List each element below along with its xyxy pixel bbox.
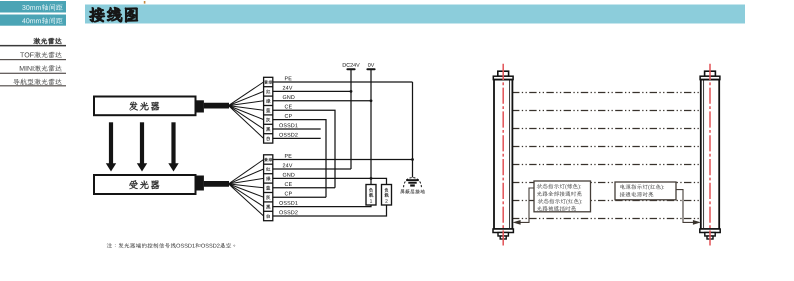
junction 24V emitter — [350, 90, 353, 93]
DC24V supply terminal — [343, 63, 360, 169]
sidebar tab 40mm axis pitch — [0, 15, 66, 26]
status LED leader arrow — [513, 188, 534, 225]
power LED annotation box — [615, 182, 676, 200]
0V supply terminal — [367, 63, 374, 184]
wire PE (emitter) to shield rail — [273, 76, 413, 82]
sidebar item laser radar (active) — [0, 38, 66, 47]
load 2 负载2 — [382, 185, 392, 206]
beam arrow 1 — [106, 122, 116, 171]
emitter terminal strip with wire colors — [229, 77, 273, 143]
wire OSSD1 (emitter, floating) — [273, 123, 321, 129]
page title bar 接线图 — [85, 5, 745, 24]
junction GND emitter — [370, 99, 373, 102]
power LED leader arrow — [676, 190, 701, 225]
PE shield rail — [412, 82, 414, 177]
wire OSSD2 (receiver) to load 2 — [273, 205, 387, 217]
wire CE (emitter) — [273, 105, 335, 188]
emitter box 发光器 — [94, 97, 196, 116]
receiver cable connector — [196, 176, 229, 191]
emitter cable connector — [196, 100, 229, 112]
status LED annotation box — [534, 181, 591, 212]
wire 24V (emitter) to DC24V rail — [273, 86, 351, 92]
wire CP (receiver) — [273, 192, 326, 198]
sidebar tab 30mm axis pitch — [0, 1, 66, 13]
wire GND (receiver) to 0V rail and load 2 — [273, 173, 387, 185]
junction PE receiver — [411, 158, 414, 161]
beam arrow 3 — [168, 122, 178, 171]
junction GND receiver / load 1 — [370, 177, 373, 180]
wire GND (emitter) to 0V rail — [273, 95, 371, 101]
earth ground symbol (shield grounding) — [400, 178, 425, 194]
wire CE (receiver) — [273, 182, 335, 188]
sidebar item navigation laser radar — [0, 79, 66, 87]
wire OSSD2 (emitter, floating) — [273, 133, 321, 139]
sidebar item TOF laser radar — [0, 52, 66, 61]
receiver box 受光器 — [94, 175, 196, 194]
light curtain tower left (emitter) — [493, 64, 513, 246]
load 1 负载1 — [366, 185, 376, 206]
beam arrow 2 — [137, 122, 147, 171]
wire CP (emitter) — [273, 114, 326, 197]
light curtain tower right (receiver) — [700, 64, 720, 246]
wire PE (receiver) to shield rail — [273, 154, 413, 160]
wire 24V (receiver) to DC24V rail — [273, 163, 351, 169]
sidebar item MINI laser radar — [0, 65, 66, 74]
wire OSSD1 (receiver) to load 1 — [273, 201, 371, 207]
light beams (dash-dot) — [512, 93, 701, 219]
receiver terminal strip with wire colors — [229, 155, 273, 221]
footnote — [107, 243, 235, 248]
decorative orange speck — [144, 1, 146, 4]
